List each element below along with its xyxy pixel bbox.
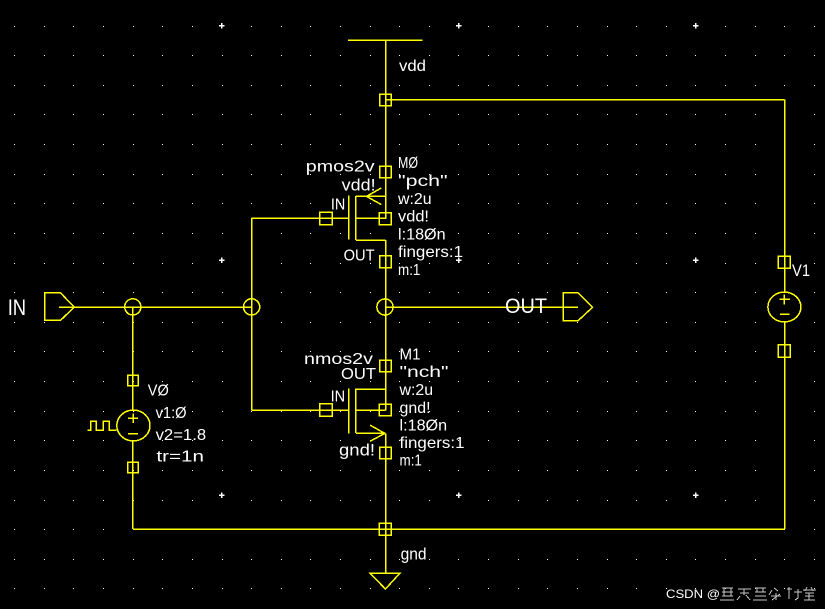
svg-text:tr=1n: tr=1n (156, 449, 204, 466)
node IN-V0 junction (125, 299, 141, 315)
pin square V1 plus (778, 256, 790, 268)
wire OUT horizontal (386, 306, 579, 308)
node circles (125, 299, 393, 315)
svg-text:w:2u: w:2u (397, 191, 432, 208)
svg-text:gnd!: gnd! (339, 442, 375, 460)
properties V0 (148, 382, 206, 465)
svg-text:MØ: MØ (398, 155, 418, 172)
source V0 (87, 410, 150, 441)
svg-text:gnd: gnd (401, 546, 427, 564)
pin square M1 source (380, 447, 391, 458)
junction square vdd node (380, 94, 392, 106)
svg-text:OUT: OUT (341, 366, 376, 383)
svg-text:CSDN @: CSDN @ (666, 587, 720, 601)
svg-text:l:18Øn: l:18Øn (400, 418, 448, 435)
svg-text:m:1: m:1 (398, 262, 420, 279)
wire top horizontal to V1 (386, 99, 785, 101)
watermark CJK glyph placeholders (720, 587, 816, 600)
wire bottom horizontal (133, 528, 785, 530)
ground symbol (370, 573, 400, 589)
svg-text:v1:Ø: v1:Ø (156, 405, 187, 422)
svg-text:IN: IN (331, 197, 345, 214)
pin square V0 minus (128, 462, 138, 472)
node OUT junction (377, 299, 393, 315)
transistor M1 nmos2v (349, 388, 386, 441)
wire V1 vertical top (784, 100, 786, 293)
pin squares (128, 94, 791, 535)
junction square gnd node (379, 523, 391, 535)
wire pmos gate (252, 217, 349, 219)
source V1 (768, 292, 801, 322)
svg-text:vdd: vdd (399, 58, 426, 75)
wire V0 vertical top (132, 307, 134, 410)
svg-text:fingers:1: fingers:1 (398, 244, 463, 261)
svg-text:VØ: VØ (148, 382, 169, 399)
wire nmos gate (252, 409, 349, 411)
pulse waveform glyph (87, 421, 116, 430)
pin square V1 minus (778, 345, 790, 357)
svg-text:V1: V1 (792, 261, 810, 280)
svg-text:"nch": "nch" (400, 364, 449, 381)
svg-text:pmos2v: pmos2v (306, 158, 375, 175)
properties M1 (399, 346, 465, 469)
svg-text:vdd!: vdd! (398, 209, 429, 226)
svg-text:w:2u: w:2u (399, 382, 434, 399)
node gate junction (244, 299, 260, 315)
pin square M0 bulk (379, 213, 391, 225)
wire vdd vertical (385, 40, 387, 219)
wire V0 vertical bottom (132, 441, 134, 529)
pin square M0 gate (320, 212, 333, 225)
svg-text:vdd!: vdd! (342, 176, 376, 194)
wire IN horizontal (59, 306, 252, 308)
pin square V0 plus (128, 375, 138, 385)
svg-text:IN: IN (8, 295, 26, 320)
properties M0 (397, 155, 463, 279)
svg-text:v2=1.8: v2=1.8 (156, 427, 207, 444)
pin square M1 drain (380, 360, 391, 371)
pin OUT (563, 293, 593, 321)
svg-text:IN: IN (331, 389, 346, 406)
svg-text:fingers:1: fingers:1 (400, 435, 465, 452)
pin square M0 source (380, 166, 391, 177)
pin square M0 drain (380, 256, 392, 268)
svg-text:M1: M1 (400, 346, 421, 363)
pin square M1 bulk (379, 404, 391, 416)
watermark CSDN (666, 587, 720, 601)
svg-text:m:1: m:1 (400, 453, 422, 470)
transistor M0 pmos2v (349, 188, 386, 240)
svg-text:l:18Øn: l:18Øn (398, 226, 446, 243)
svg-text:gnd!: gnd! (400, 400, 431, 417)
wire output vertical mid (385, 240, 387, 411)
pin square M1 gate (320, 404, 333, 417)
svg-text:OUT: OUT (344, 248, 375, 265)
vdd supply bar (348, 39, 423, 41)
pin IN (45, 293, 75, 321)
wire V1 vertical bottom (784, 322, 786, 529)
svg-text:OUT: OUT (505, 295, 547, 318)
wire gate vertical (251, 218, 253, 410)
svg-text:"pch": "pch" (398, 173, 448, 190)
wire gnd vertical (385, 433, 387, 573)
